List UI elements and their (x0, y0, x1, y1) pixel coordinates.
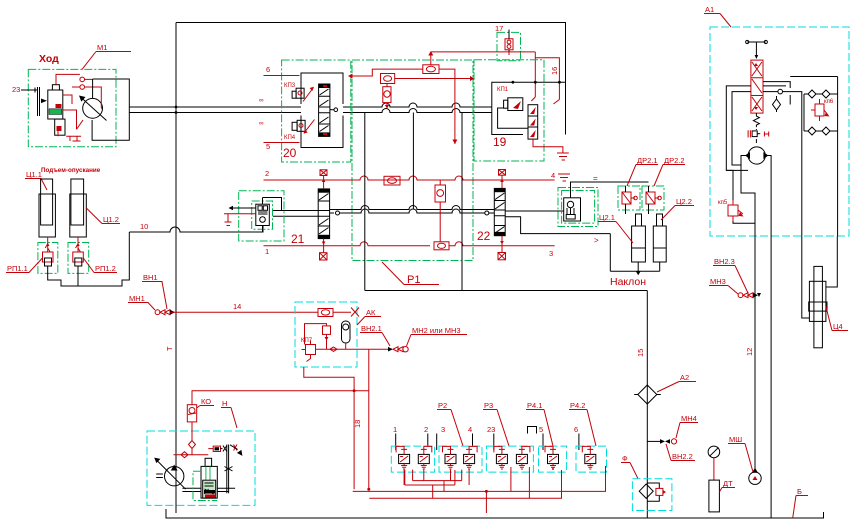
pump outlet to valve (182, 488, 235, 491)
svg-text:5: 5 (266, 142, 270, 151)
svg-text:18: 18 (353, 420, 362, 428)
wire travel double line left (129, 107, 301, 113)
valve19 outline black (492, 82, 566, 134)
svg-text:19: 19 (493, 135, 507, 149)
box RP1.2 green (68, 243, 89, 274)
red feed lines in pump box (189, 425, 196, 455)
svg-text:16: 16 (550, 67, 559, 75)
svg-text:ДР2.2: ДР2.2 (664, 156, 685, 165)
svg-text:МН4: МН4 (681, 414, 697, 423)
accumulator symbol (342, 321, 351, 343)
lever (227, 445, 229, 494)
svg-text:14: 14 (233, 302, 241, 311)
svg-text:кп6: кп6 (824, 99, 834, 105)
svg-text:МШ: МШ (729, 435, 742, 444)
red risers from spools top area (387, 107, 413, 180)
svg-text:АК: АК (366, 308, 376, 317)
wire bottom border (166, 509, 824, 518)
svg-text:Ц1.1: Ц1.1 (26, 170, 42, 179)
comp check in AK (318, 309, 333, 317)
motor M1 circle (83, 98, 103, 118)
box block20 green (282, 60, 351, 162)
valve RP1.1 (45, 237, 50, 252)
svg-text:МН1: МН1 (129, 294, 145, 303)
valve KP3 (296, 88, 304, 98)
svg-text:Н: Н (222, 399, 227, 408)
svg-text:Ф: Ф (622, 454, 628, 463)
svg-text:>: > (594, 236, 599, 245)
svg-text:Р4.1: Р4.1 (527, 401, 542, 410)
svg-text:15: 15 (636, 349, 645, 357)
valve pilot at 404.1 (399, 454, 410, 463)
svg-text:17: 17 (495, 24, 503, 33)
red pipes in Hod (56, 74, 101, 129)
cylinder C2.1 (632, 226, 646, 262)
valve KP4 (297, 120, 305, 131)
svg-text:РП1.1: РП1.1 (7, 264, 28, 273)
svg-text:ВН1: ВН1 (143, 273, 158, 282)
steering valve red (751, 60, 763, 113)
wire red 17 manifold (431, 52, 536, 97)
svg-text:МН2 или МН3: МН2 или МН3 (412, 326, 461, 335)
svg-text:КО: КО (201, 397, 211, 406)
svg-text:М1: М1 (97, 43, 107, 52)
svg-text:КП7: КП7 (301, 338, 313, 344)
svg-text:Ц1.2: Ц1.2 (103, 215, 119, 224)
svg-text:5: 5 (539, 425, 543, 434)
svg-text:Р3: Р3 (484, 401, 493, 410)
svg-text:∞: ∞ (259, 97, 264, 104)
valve pilot at 521.9 (516, 454, 527, 463)
valve pilot at 501.9 (496, 454, 507, 463)
group center green box (352, 60, 473, 261)
black motor outer wiring (92, 79, 129, 140)
svg-text:ДТ: ДТ (723, 479, 733, 488)
comp E reducer mid (435, 185, 446, 202)
node dots on travel line (175, 106, 178, 109)
solenoid boxes 21 red (320, 170, 327, 176)
comp pilot red small (323, 326, 331, 335)
svg-text:20: 20 (283, 146, 297, 160)
svg-text:КП4: КП4 (284, 135, 296, 141)
wire MN2 line (316, 348, 389, 350)
wire line 10 to block 21 with hop (129, 226, 263, 232)
wire AK drain (304, 349, 369, 489)
red port circles (80, 77, 85, 82)
valve pilot at 450.5 (445, 454, 456, 463)
group P1 box (365, 113, 648, 291)
cylinder C1.2 (71, 179, 84, 225)
svg-text:Ц2.2: Ц2.2 (676, 197, 692, 206)
solenoid boxes 22 red (499, 170, 506, 176)
AK closed port X (351, 308, 359, 317)
wire line 14 (170, 311, 318, 313)
check diamonds right (804, 90, 838, 98)
svg-text:Ход: Ход (39, 53, 59, 65)
svg-text:Наклон: Наклон (610, 276, 646, 288)
svg-text:Р4.2: Р4.2 (570, 401, 585, 410)
group A2 filter (646, 291, 648, 519)
svg-text:1: 1 (393, 425, 397, 434)
ground sym top right of 19 (558, 174, 570, 181)
group middle double line (273, 211, 319, 217)
svg-text:кп5: кп5 (718, 200, 728, 206)
A1 internal wiring (763, 82, 790, 92)
valve pilot at 423.8 (418, 454, 429, 463)
group block 19 (474, 60, 544, 161)
svg-text:ВН2.1: ВН2.1 (361, 324, 382, 333)
green dashed pilot line (193, 471, 217, 500)
svg-text:КП1: КП1 (497, 87, 509, 93)
group right feed component of 22 (558, 188, 598, 227)
svg-text:23: 23 (487, 425, 495, 434)
valve 19 vertical black (528, 105, 538, 139)
group MN4 VN2.2 (647, 440, 660, 442)
svg-text:ДР2.1: ДР2.1 (637, 156, 658, 165)
spool 20 (319, 84, 330, 136)
pump circle (165, 467, 184, 486)
svg-text:ВН2.3: ВН2.3 (714, 257, 735, 266)
valve lower block (55, 119, 65, 135)
valve RP1.2 (76, 237, 81, 252)
box Hod green (28, 69, 116, 146)
wire from RP valves to line 10 (48, 232, 130, 286)
pilot comp red (213, 446, 220, 451)
wire main frame top (176, 23, 566, 135)
svg-text:1: 1 (265, 247, 269, 256)
svg-text:Т: Т (165, 346, 174, 351)
svg-text:2: 2 (424, 425, 428, 434)
main line through box (174, 430, 176, 432)
svg-text:22: 22 (477, 229, 491, 243)
svg-text:12: 12 (745, 348, 754, 356)
group pressure gauge DT (708, 446, 720, 458)
wire travel double line right with hops (343, 103, 492, 107)
control valve block (201, 466, 217, 498)
group AK accumulator box (295, 302, 357, 367)
svg-text:А1: А1 (705, 5, 714, 14)
svg-text:6: 6 (574, 425, 578, 434)
valve DR2.1 (622, 192, 631, 204)
tilt bottom piping (610, 234, 659, 272)
valve 17 red (505, 39, 513, 50)
wire kp1 red feed (531, 97, 535, 101)
cylinder C1.1 (41, 179, 53, 225)
box RP1.1 green (38, 243, 58, 274)
gauge MN1 symbol (155, 310, 160, 315)
group pump box N (147, 431, 255, 505)
box P row cyan (391, 446, 434, 472)
red tank by left comp (224, 214, 256, 226)
svg-text:6: 6 (266, 65, 270, 74)
svg-text:Б: Б (797, 487, 802, 496)
comp C reducer (383, 87, 391, 103)
svg-text:Ц4: Ц4 (833, 322, 843, 331)
svg-text:23: 23 (12, 85, 20, 94)
svg-text:Р2: Р2 (438, 401, 447, 410)
valve pilot at 469.1 (464, 454, 475, 463)
svg-text:21: 21 (291, 232, 305, 246)
svg-text:КП3: КП3 (284, 83, 296, 89)
group A1 outputs down (755, 236, 771, 518)
comp relief on rail3 (434, 242, 449, 250)
svg-text:4: 4 (468, 425, 472, 434)
spring below valve (753, 113, 759, 127)
comp A check top (423, 65, 439, 74)
svg-text:4: 4 (551, 171, 555, 180)
heater red symbol (748, 130, 769, 137)
svg-text:∞: ∞ (259, 120, 264, 127)
svg-text:РП1.2: РП1.2 (95, 264, 116, 273)
svg-text:А2: А2 (680, 373, 689, 382)
valve block20 outer (301, 73, 343, 148)
svg-text:МН3: МН3 (710, 277, 726, 286)
valve pilot at 590.3 (585, 454, 596, 463)
group spool 22 (494, 188, 505, 235)
cylinder C2.2 (653, 226, 666, 262)
wire main left vertical (175, 23, 177, 514)
svg-text:Ц2.1: Ц2.1 (599, 213, 615, 222)
comp D check on rail2 (384, 176, 400, 185)
wire 19 drain red to tank (533, 139, 569, 160)
steering handle (747, 42, 766, 55)
group left feed component of 21 (239, 191, 284, 241)
svg-text:3: 3 (441, 425, 445, 434)
pump circle A1 (748, 147, 765, 164)
valve body travel brake (38, 87, 40, 116)
group spool 21 (318, 189, 329, 239)
black drop lines to valves (396, 434, 579, 451)
group cylinder C4 (802, 236, 838, 318)
svg-text:3: 3 (549, 249, 553, 258)
red manifold under valve row (396, 446, 590, 452)
valve pilot at 553.0 (548, 454, 559, 463)
svg-text:ВН2.2: ВН2.2 (672, 452, 693, 461)
svg-text:10: 10 (140, 222, 148, 231)
comp B check mid (381, 74, 395, 84)
port circle right of spool20 (334, 108, 338, 112)
svg-text:Подъем-опускание: Подъем-опускание (41, 167, 101, 174)
svg-text:2: 2 (265, 169, 269, 178)
valve DR2.2 (646, 192, 655, 204)
svg-text:=: = (593, 174, 598, 183)
